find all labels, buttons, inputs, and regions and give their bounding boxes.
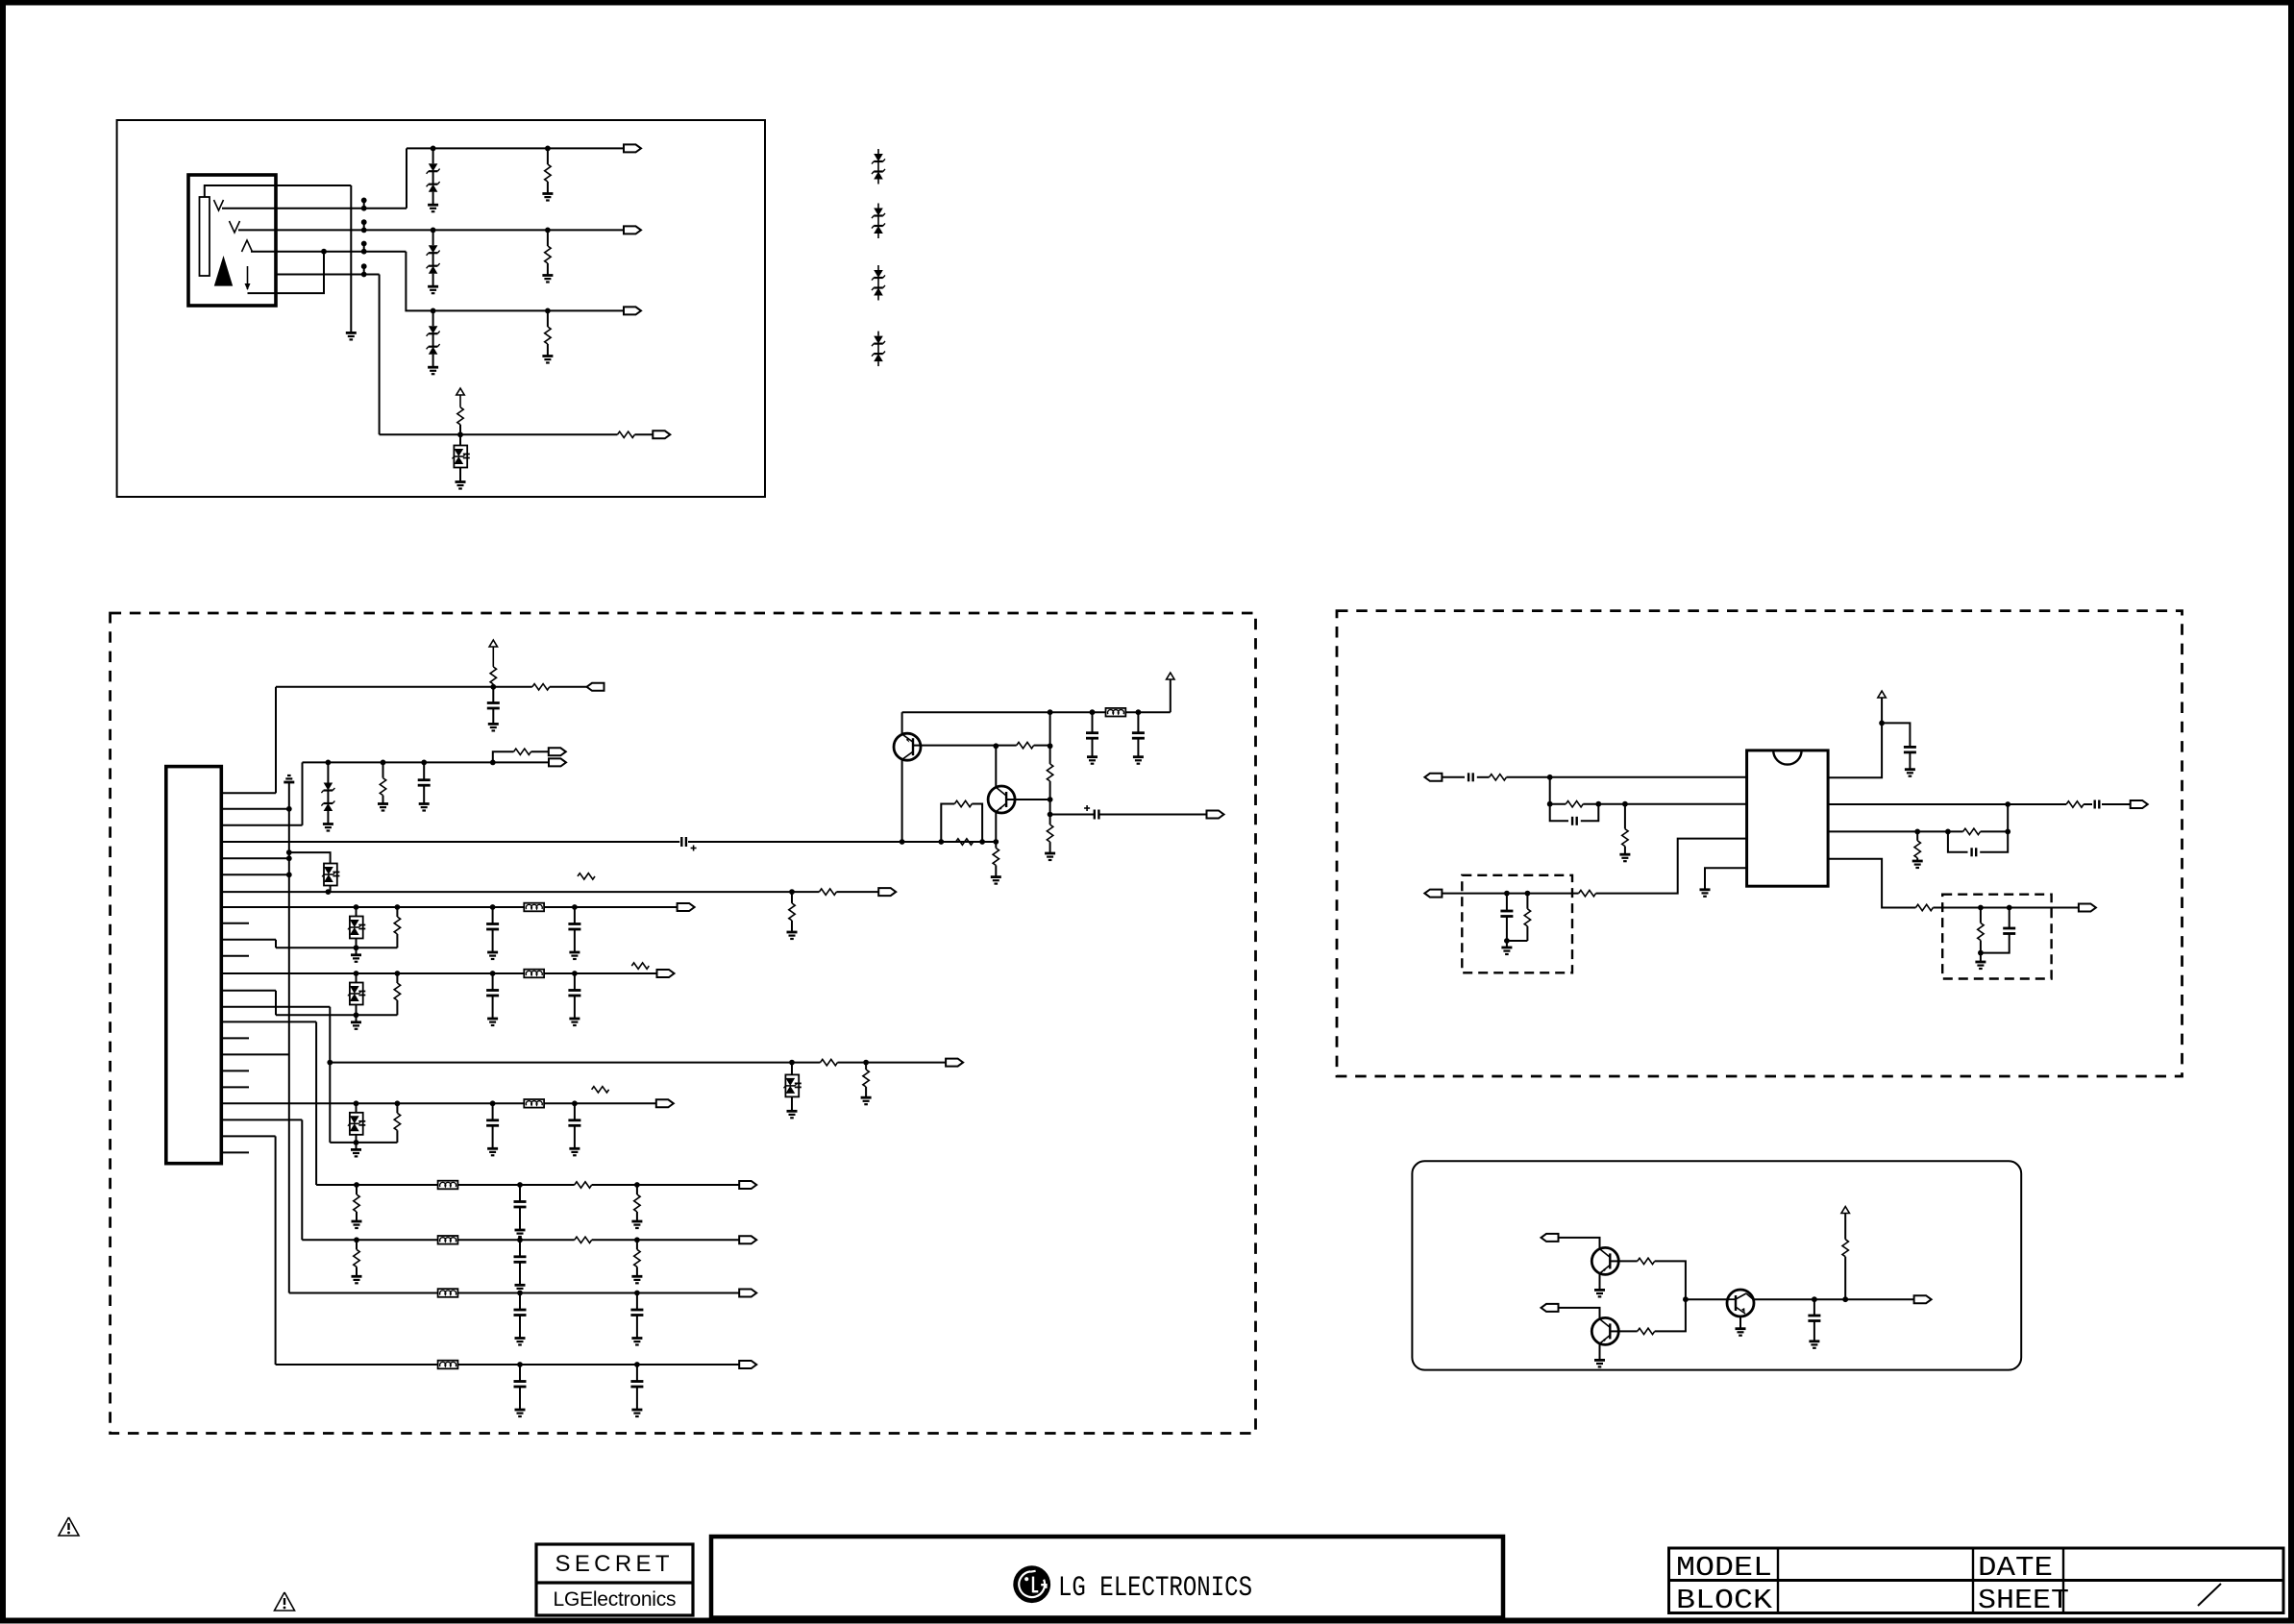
resistor R5: [617, 431, 634, 437]
junction: [993, 839, 999, 845]
power VCC: [1841, 1207, 1849, 1214]
J1 detect arrow: [247, 266, 249, 289]
wire: [941, 804, 954, 843]
junction: [1504, 891, 1510, 897]
junction: [634, 1291, 640, 1296]
wire pin13: [221, 990, 276, 992]
wire: [901, 712, 903, 733]
wire: [432, 148, 434, 163]
wire: [460, 433, 617, 435]
ground: [515, 1337, 526, 1340]
resistor R33: [1915, 904, 1933, 910]
LG logo emblem: [1013, 1565, 1050, 1603]
svg-text:DATE: DATE: [1978, 1552, 2053, 1584]
resistor: [863, 1070, 869, 1087]
junction: [286, 849, 292, 855]
ferrite bead: [438, 1181, 458, 1190]
wire: [1050, 814, 1095, 816]
block box A: [117, 120, 765, 497]
ground: [861, 1096, 872, 1099]
ground: [1975, 961, 1986, 964]
capacitor C22: [1970, 848, 1972, 856]
junction: [1683, 1296, 1689, 1302]
ground: [488, 723, 499, 726]
resistor: [636, 1185, 638, 1194]
wire: [1092, 738, 1094, 757]
ferrite bead: [524, 970, 544, 978]
ground: [1619, 853, 1630, 856]
node pair P2: [363, 222, 365, 230]
junction: [326, 760, 332, 766]
svg-text:SECRET: SECRET: [555, 1551, 675, 1577]
wire: [636, 1293, 638, 1311]
secret box: [536, 1544, 693, 1615]
wire: [1125, 711, 1171, 713]
port tag: [624, 226, 641, 234]
wire: [1599, 1344, 1601, 1360]
wire: [248, 252, 325, 293]
wire pin11: [221, 955, 249, 957]
wire: [1980, 908, 1982, 923]
wire: [423, 785, 425, 803]
wire: [636, 1316, 638, 1339]
wire pin23: [221, 1151, 249, 1153]
junction: [354, 1012, 359, 1018]
wire: [1828, 698, 1882, 777]
ground: [787, 1110, 798, 1113]
wire: [550, 686, 587, 688]
wire rail2: [688, 841, 996, 843]
zener pair D5/D6: [429, 326, 438, 333]
capacitor C24: [1468, 773, 1469, 781]
port tag: [946, 1059, 963, 1067]
port tag: [624, 144, 641, 152]
wire: [1506, 894, 1508, 911]
wire: [1583, 803, 1746, 805]
wire: [432, 310, 434, 326]
resistor R18: [1049, 746, 1051, 764]
junction: [490, 684, 496, 690]
TVS: [350, 1113, 363, 1135]
wire: [1559, 1308, 1600, 1318]
ground: [352, 1220, 362, 1223]
wire pin3: [221, 824, 302, 826]
ground: [1045, 852, 1055, 855]
connector CN1: [166, 767, 222, 1164]
wire: [519, 1293, 521, 1311]
junction: [572, 1100, 578, 1106]
wire: [972, 804, 982, 843]
junction: [395, 971, 401, 976]
wire pin15: [221, 1021, 316, 1022]
wire: [459, 434, 461, 445]
junction: [1945, 829, 1951, 835]
ground: [456, 480, 466, 483]
wire: [330, 886, 332, 893]
wire: [1882, 723, 1910, 747]
polarized capacitor C15: [1094, 810, 1096, 820]
junction: [979, 839, 985, 845]
ground: [1501, 947, 1512, 949]
wire: [519, 1365, 521, 1382]
wire: [1442, 893, 1578, 895]
junction: [1048, 743, 1053, 749]
capacitor: [486, 989, 499, 992]
junction: [545, 308, 551, 314]
resistor R32: [1963, 828, 1981, 834]
wire: [1933, 907, 1980, 909]
transistor Q2: [988, 786, 1015, 813]
wire: [492, 973, 494, 991]
wire: [289, 852, 331, 863]
sheet slash: [2198, 1584, 2221, 1606]
transistor Q4: [1591, 1317, 1618, 1344]
svg-text:BLOCK: BLOCK: [1676, 1585, 1773, 1616]
J1 ring contact: [230, 221, 240, 233]
junction: [2005, 801, 2010, 807]
wire: [406, 148, 407, 208]
ground: [1594, 1289, 1605, 1292]
wire rail1: [303, 761, 550, 763]
ground: [631, 1409, 642, 1412]
ground: [1594, 1359, 1605, 1362]
junction: [286, 872, 292, 877]
capacitor C11: [418, 778, 431, 781]
wire: [637, 1239, 739, 1241]
junction: [634, 1182, 640, 1188]
wire: [492, 687, 494, 703]
junction: [572, 971, 578, 976]
wire: [1655, 1299, 1686, 1331]
wire: [1828, 830, 1963, 832]
wire: [1137, 712, 1139, 733]
wire: [432, 230, 434, 245]
wire: [2084, 803, 2092, 805]
wire: [1550, 804, 1568, 822]
port tag: [739, 1290, 756, 1297]
wire: [592, 1239, 637, 1241]
capacitor: [514, 1309, 527, 1312]
block box E rounded: [1412, 1161, 2021, 1369]
resistor: [356, 1240, 358, 1249]
wire: [1581, 804, 1599, 822]
ground: [542, 192, 553, 195]
junction: [1879, 721, 1885, 726]
wire: [592, 1184, 637, 1186]
capacitor: [486, 1119, 499, 1121]
junction: [517, 1291, 523, 1296]
wire: [1599, 1274, 1601, 1290]
port tag: [1207, 811, 1224, 819]
capacitor C10: [487, 701, 500, 704]
wire: [636, 1365, 638, 1382]
junction: [1547, 775, 1553, 780]
wire: [1739, 1316, 1741, 1329]
port tag: [1424, 774, 1442, 781]
wire: [1442, 776, 1465, 778]
wire: [547, 148, 549, 164]
floating resistor: [631, 963, 649, 969]
wire: [205, 185, 351, 197]
port tag: [549, 748, 566, 755]
wire rail r11: [437, 1364, 740, 1366]
wire: [382, 762, 384, 777]
ground: [352, 1275, 362, 1278]
wire: [1092, 712, 1094, 733]
TVS: [785, 1074, 799, 1096]
wire: [901, 759, 903, 842]
wire: [1596, 839, 1747, 894]
resistor R20: [818, 891, 820, 893]
wire: [406, 252, 624, 311]
ground: [419, 802, 430, 805]
wire: [519, 1387, 521, 1410]
resistor R13: [514, 749, 531, 754]
port tag: [624, 307, 641, 314]
junction: [517, 1182, 523, 1188]
wire: [1507, 776, 1747, 778]
resistor R16: [993, 849, 999, 866]
wire: [1550, 803, 1566, 805]
junction: [395, 1100, 401, 1106]
wire: [574, 996, 576, 1019]
junction: [1048, 797, 1053, 802]
wire: [1828, 859, 1915, 908]
ground: [569, 1147, 580, 1150]
TVS TVS1: [324, 864, 337, 886]
resistor R30: [2066, 801, 2084, 807]
wire: [519, 1185, 521, 1202]
wire: [1981, 907, 2010, 909]
wire: [357, 1142, 398, 1144]
wire: [1549, 777, 1551, 804]
resistor R15: [954, 800, 972, 806]
wire: [1049, 800, 1051, 815]
wire: [380, 433, 460, 435]
capacitor: [568, 989, 580, 992]
wire rail r9: [357, 1239, 575, 1241]
resistor: [396, 973, 398, 983]
resistor: [792, 1062, 821, 1064]
wire: [634, 433, 653, 435]
wire: [1813, 1321, 1815, 1341]
port tag: [549, 758, 566, 766]
wire: [547, 230, 549, 246]
junction: [572, 904, 578, 910]
wire: [1705, 868, 1747, 890]
wire rail r10: [437, 1292, 740, 1294]
resistor R34: [1978, 923, 1984, 941]
warning triangle: [59, 1517, 79, 1536]
wire pin5: [221, 857, 288, 859]
port tag: [878, 888, 896, 896]
wire: [356, 1103, 358, 1113]
wire: [791, 1063, 793, 1075]
wire: [1618, 1330, 1637, 1332]
wire: [492, 1125, 494, 1148]
ground: [631, 1220, 642, 1223]
wire: [1506, 917, 1508, 942]
transistor Q5: [1727, 1290, 1754, 1316]
wire: [1753, 1298, 1913, 1300]
node pair P3: [363, 244, 365, 252]
floating resistor: [592, 1087, 609, 1093]
junction: [2007, 905, 2012, 911]
svg-text:SHEET: SHEET: [1978, 1585, 2069, 1616]
wire: [574, 929, 576, 952]
wire pin6: [221, 874, 288, 875]
wire: [1828, 803, 2066, 805]
junction: [1622, 801, 1628, 807]
wire: [995, 746, 997, 786]
wire pin22: [221, 1135, 275, 1137]
capacitor: [630, 1380, 643, 1383]
wire: [1526, 894, 1528, 909]
resistor R41: [1638, 1328, 1655, 1334]
junction: [490, 904, 496, 910]
port tag: [587, 683, 604, 691]
wire: [356, 1005, 358, 1016]
resistor R40: [1638, 1258, 1655, 1264]
svg-text:LGElectronics: LGElectronics: [554, 1588, 677, 1611]
wire: [637, 1184, 739, 1186]
junction: [1978, 950, 1984, 956]
wire: [493, 686, 532, 688]
wire: [1624, 804, 1626, 829]
wire: [423, 762, 425, 779]
wire: [356, 1143, 358, 1150]
junction: [993, 743, 999, 749]
wire: [531, 750, 549, 752]
wire: [791, 1096, 793, 1111]
wire: [407, 147, 624, 149]
ground: [487, 1147, 498, 1150]
resistor: [396, 1103, 398, 1113]
wire: [866, 1062, 946, 1064]
wire pin12 rail: [221, 972, 656, 974]
wire pin18: [221, 1070, 249, 1071]
junction: [286, 855, 292, 861]
wire: [222, 208, 407, 209]
port tag: [739, 1181, 756, 1189]
capacitor: [514, 1200, 527, 1203]
wire: [1477, 776, 1490, 778]
wire: [2007, 804, 2009, 831]
wire: [1015, 799, 1050, 800]
resistor R12: [380, 778, 385, 796]
resistor R19: [1049, 815, 1051, 825]
ground: [542, 355, 553, 357]
ground: [542, 274, 553, 277]
wire: [350, 185, 352, 332]
ground: [1700, 888, 1711, 891]
wire: [1137, 738, 1139, 757]
wire: [1813, 1299, 1815, 1316]
wire: [276, 686, 493, 688]
wire: [637, 1292, 739, 1294]
wire pin19: [221, 1086, 249, 1088]
port tag: [1424, 890, 1442, 898]
block box C dashed: [111, 613, 1256, 1434]
ground: [569, 1018, 580, 1021]
junction: [1547, 801, 1553, 807]
junction: [900, 839, 905, 845]
junction: [354, 945, 359, 950]
wire: [1618, 1260, 1637, 1262]
capacitor C26: [1500, 910, 1513, 913]
ground: [1133, 755, 1144, 758]
wire: [356, 1135, 358, 1143]
junction: [326, 889, 332, 895]
wire: [865, 1063, 867, 1070]
junction: [1048, 812, 1053, 818]
junction: [286, 806, 292, 812]
TVS RV1: [454, 446, 467, 468]
port tag: [1542, 1234, 1559, 1242]
resistor: [575, 1182, 592, 1188]
J1 pin strip: [200, 197, 210, 276]
wire: [1909, 752, 1911, 770]
block box D1 dashed: [1462, 875, 1572, 973]
junction: [517, 1362, 523, 1367]
wire pin16: [221, 1037, 249, 1039]
title table: [1669, 1548, 2284, 1613]
wire: [836, 891, 878, 893]
zener pair DB3: [877, 265, 879, 270]
J1 tip contact: [214, 200, 224, 210]
wire: [493, 751, 514, 762]
port tag: [739, 1361, 756, 1368]
junction: [517, 1237, 523, 1243]
wire: [357, 1014, 398, 1016]
block box D2 dashed: [1942, 895, 2051, 979]
J1 ring2 contact: [242, 240, 253, 252]
junction: [381, 760, 386, 766]
wire: [492, 996, 494, 1019]
wire: [519, 1240, 521, 1257]
wire: [1559, 1238, 1600, 1248]
ground: [346, 332, 357, 334]
capacitor C13: [1086, 731, 1098, 734]
junction: [354, 1100, 359, 1106]
junction: [1136, 709, 1142, 715]
junction: [421, 760, 427, 766]
junction: [789, 889, 795, 895]
ground: [487, 1018, 498, 1021]
junction: [1812, 1296, 1817, 1302]
warning triangle: [275, 1592, 295, 1611]
block box D dashed: [1337, 611, 2183, 1076]
wire: [356, 939, 358, 948]
floating resistor: [578, 874, 595, 879]
wire: [1506, 941, 1508, 947]
wire pin14: [221, 1006, 330, 1008]
wire pin8 rail: [221, 906, 677, 908]
node pair P1: [363, 200, 365, 208]
wire rail-top: [902, 711, 1106, 713]
wire: [276, 274, 380, 276]
TVS: [350, 983, 363, 1005]
wire: [238, 229, 624, 231]
wire: [459, 468, 461, 482]
port tag: [1914, 1295, 1932, 1303]
J1 sleeve: [214, 256, 233, 286]
ground: [1087, 755, 1098, 758]
capacitor: [568, 923, 580, 925]
ground: [1809, 1340, 1819, 1342]
wire: [492, 907, 494, 924]
resistor R10: [490, 667, 496, 684]
